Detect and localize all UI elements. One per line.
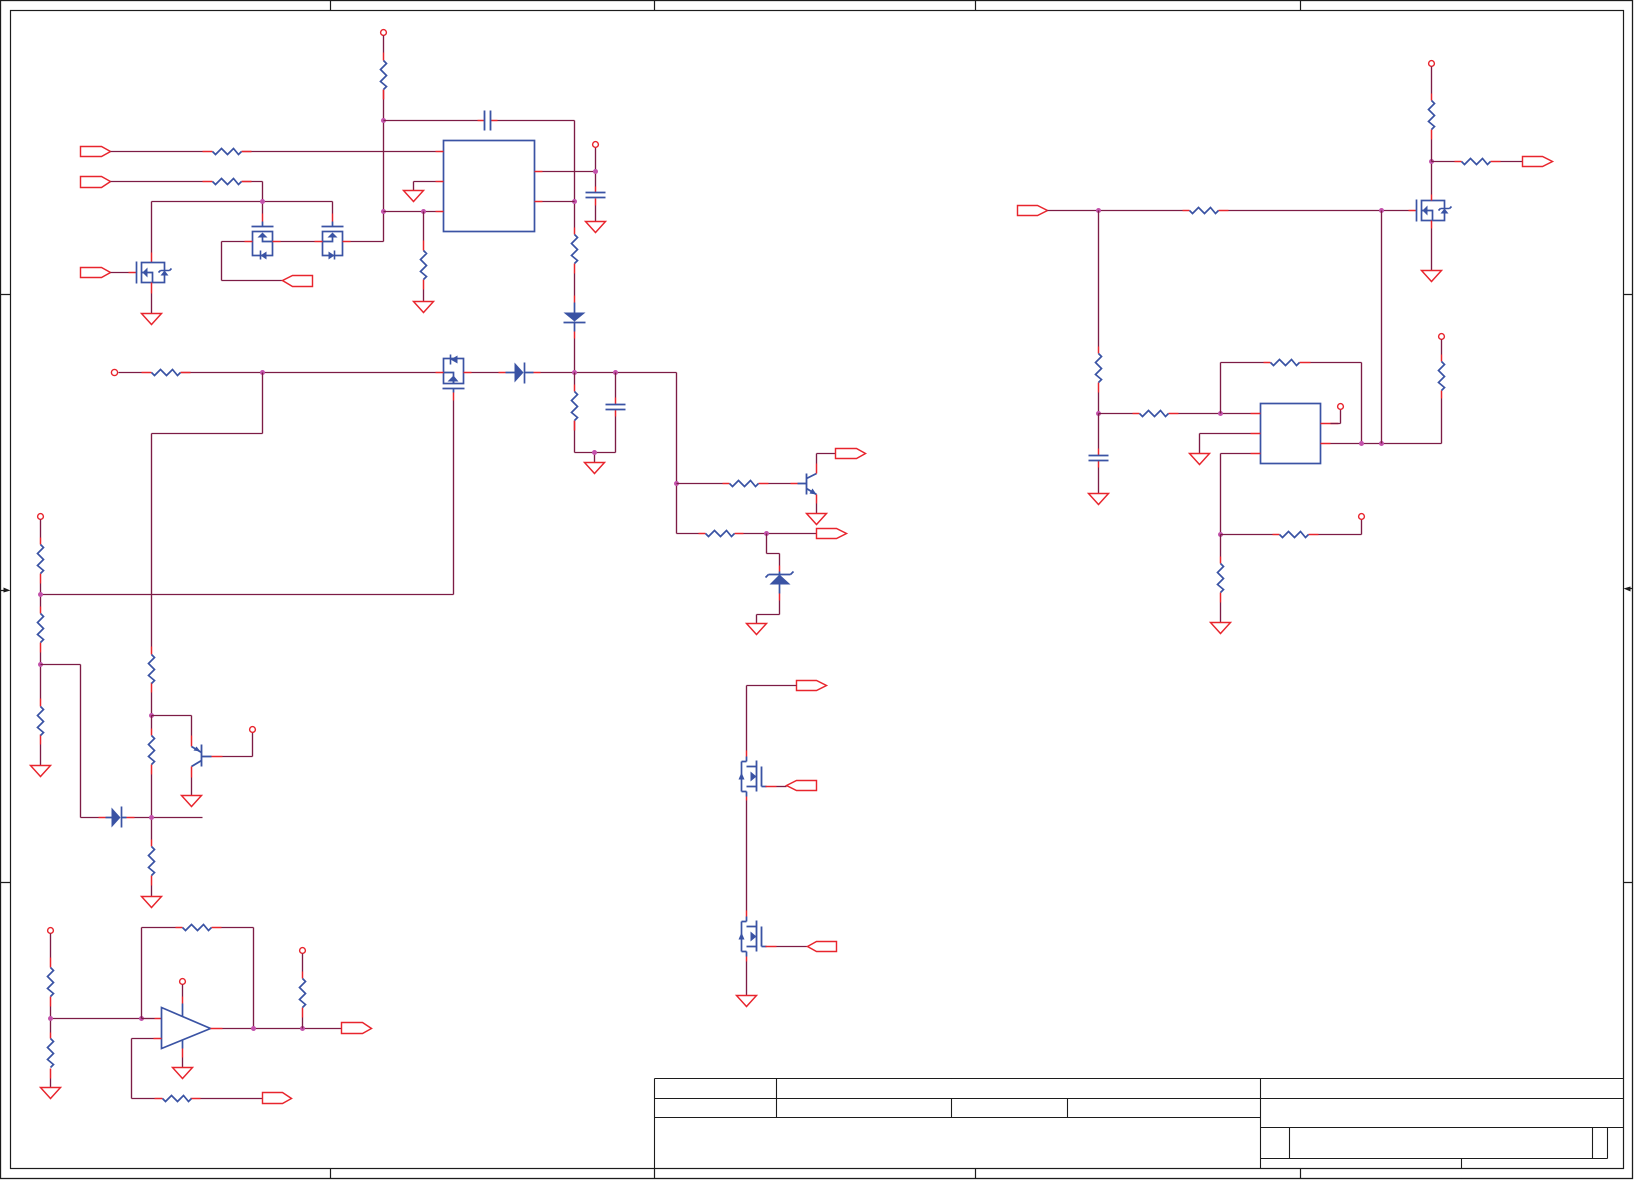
junction	[674, 481, 679, 486]
wire P2 to gate rail	[111, 182, 263, 202]
junction	[764, 531, 769, 536]
port P12	[808, 942, 837, 952]
wire P1 to U1 pin1	[111, 151, 436, 153]
wire Q6 base to pin circle	[212, 756, 223, 758]
port P13	[1018, 206, 1048, 216]
pin circle left column top	[38, 514, 44, 520]
junction	[260, 370, 265, 375]
ground	[747, 624, 767, 635]
junction	[613, 370, 618, 375]
wire U2 output rail	[1331, 399, 1442, 444]
op-amp U3	[162, 1008, 211, 1049]
junction	[572, 370, 577, 375]
ground	[414, 302, 434, 313]
ground	[173, 1068, 193, 1079]
resistor R26	[1264, 362, 1311, 364]
port P4	[283, 276, 313, 287]
wire U2 pin2 to ground	[1200, 434, 1251, 454]
resistor R3	[383, 53, 385, 100]
pin circle R29 top	[1439, 334, 1445, 340]
diode D1 (down)	[564, 303, 586, 332]
ground	[1211, 623, 1231, 634]
ground	[585, 463, 605, 474]
ground	[41, 1088, 61, 1099]
port P1	[81, 147, 111, 157]
junction	[300, 1026, 305, 1031]
ground	[31, 766, 51, 777]
Q4 pin stubs	[436, 373, 472, 401]
capacitor C2	[595, 187, 597, 206]
ground	[807, 514, 827, 525]
port P14	[1523, 157, 1553, 167]
zener diode D3	[766, 572, 794, 594]
wire branch down-left	[152, 373, 263, 716]
transistor Q7 (N-MOSFET)	[739, 757, 767, 797]
wire top feedback through C1	[384, 121, 575, 228]
op-amp/regulator U1 box	[444, 141, 535, 232]
resistor R13	[40, 699, 42, 745]
junction	[38, 662, 43, 667]
wire U2 right pin1 to pin circle	[1331, 410, 1341, 424]
junction	[1429, 159, 1434, 164]
wire R16 chain	[51, 934, 142, 1088]
wire C4 branch	[1098, 414, 1100, 494]
wire R14 R15 chain	[151, 716, 153, 897]
wire to R9 and Q5 base	[677, 483, 791, 485]
pin circle op-amp input chain	[48, 928, 54, 934]
ground	[1190, 454, 1210, 465]
wire to Q6 emitter	[152, 716, 192, 736]
wire branch to D4	[41, 665, 99, 818]
junction	[592, 450, 597, 455]
wire U1 pin3 rail	[384, 211, 436, 213]
wire R10 to port P6	[744, 533, 817, 535]
wire R22 chain	[1431, 67, 1433, 162]
wire R28 to ground	[1220, 535, 1222, 623]
transistor Q1 (P-MOSFET)	[137, 262, 172, 284]
resistor R29	[1441, 355, 1443, 399]
wire R27 to pin circle	[1221, 520, 1362, 535]
wire U1 right pin2	[543, 201, 575, 203]
U2 pin stubs	[1251, 414, 1339, 454]
wire feedback R26	[1221, 363, 1362, 444]
wire Q8 gate to port P12	[766, 946, 777, 948]
wire R8 branch	[575, 373, 616, 463]
capacitor C1	[478, 120, 498, 122]
ground	[1089, 494, 1109, 505]
wire P10 to Q7 drain	[747, 686, 797, 751]
wire Q1 source to ground	[151, 283, 153, 294]
pin circle	[593, 142, 599, 148]
junction	[1359, 441, 1364, 446]
resistor R1	[203, 151, 252, 153]
pin circle top of R3	[381, 30, 387, 36]
junction	[260, 199, 265, 204]
wire R20 pull-up	[302, 954, 304, 1029]
wire zener branch	[757, 534, 780, 624]
resistor R10	[699, 533, 744, 535]
wire R29	[1441, 340, 1443, 355]
capacitor C3	[615, 398, 617, 417]
port P8	[263, 1093, 292, 1104]
wire Q8 source to ground	[746, 957, 748, 962]
junction	[149, 815, 154, 820]
resistor R9	[723, 483, 769, 485]
diode D4	[106, 807, 127, 828]
transistor Q2 (dual MOSFET left)	[252, 222, 274, 260]
junction	[381, 118, 386, 123]
resistor R21	[1183, 210, 1229, 212]
pin circle	[1338, 404, 1344, 410]
junction	[381, 209, 386, 214]
junction	[48, 1016, 53, 1021]
TITLE BLOCK	[655, 1079, 1624, 1169]
wire Q5 emitter to ground	[816, 495, 818, 504]
wire Q2 left pin to port P4	[245, 241, 253, 243]
junction	[1096, 411, 1101, 416]
junction	[1218, 411, 1223, 416]
resistor R25	[1133, 413, 1179, 415]
resistor R24	[1098, 347, 1100, 393]
port P3	[81, 268, 111, 278]
resistor R20	[302, 972, 304, 1018]
resistor R18	[176, 927, 222, 929]
port P2	[81, 177, 111, 188]
wire Q9 source to ground	[1431, 221, 1433, 229]
wire main node rail	[541, 373, 699, 534]
transistor Q5 (NPN)	[798, 474, 817, 495]
resistor R17	[50, 1033, 52, 1079]
IC U2 box	[1261, 404, 1321, 464]
resistor R5	[572, 235, 578, 264]
junction	[38, 592, 43, 597]
resistor R22	[1431, 94, 1433, 140]
junction	[149, 713, 154, 718]
junction	[1379, 441, 1384, 446]
resistor R15	[151, 840, 153, 886]
resistor R11	[40, 538, 42, 584]
resistor R2	[203, 181, 252, 183]
wire Q9 drain up	[1431, 195, 1433, 201]
ground	[737, 996, 757, 1007]
wire P3 to Q1 gate	[111, 272, 129, 274]
junction	[251, 1026, 256, 1031]
wire Q6 collector to ground	[191, 767, 193, 778]
wire feedback loop R18	[142, 928, 254, 1028]
wire R25 to U2 pin1	[1099, 413, 1251, 415]
wire Q4 drain to D2	[472, 372, 499, 374]
wire Q7 gate to port P11	[766, 786, 777, 788]
resistor R23	[1455, 161, 1501, 163]
wire U2 pin3 down	[1221, 454, 1251, 535]
pin circle pull-up	[300, 948, 306, 954]
resistor R14	[151, 729, 153, 775]
resistor R6	[142, 372, 191, 374]
transistor Q6 (PNP)	[192, 745, 212, 767]
junction	[421, 209, 426, 214]
U3 ground pin	[182, 1041, 184, 1049]
junction	[139, 1016, 144, 1021]
transistor Q3 (dual MOSFET right, mirrored)	[322, 222, 344, 260]
pin circle	[1359, 514, 1365, 520]
wire Q3 right pin to node	[343, 241, 351, 243]
U1 pin stubs	[436, 152, 543, 212]
diode D2	[506, 363, 534, 384]
wire plus input to R19 and port P8	[154, 1038, 162, 1040]
U3 power pin	[180, 979, 186, 985]
junction	[1096, 208, 1101, 213]
wire gate rail	[152, 202, 333, 253]
port P7	[836, 449, 866, 459]
wire U1 right pin1 to node	[543, 147, 596, 222]
resistor R7	[151, 647, 153, 693]
wire R3 chain	[383, 36, 385, 121]
capacitor C4	[1098, 449, 1100, 468]
ground	[1422, 271, 1442, 282]
wire Q7 source to Q8 drain	[746, 797, 748, 801]
ground	[404, 191, 424, 202]
wire R4 chain	[423, 212, 425, 302]
pin stubs Q2 Q3 gates and Q1 drain	[152, 214, 333, 263]
wire Q5 collector to port P7	[816, 464, 818, 474]
resistor R28	[1220, 557, 1222, 603]
transistor Q9 (P-MOSFET gate left)	[1417, 200, 1452, 222]
port P10	[797, 681, 827, 691]
transistor Q8 (N-MOSFET)	[739, 917, 767, 957]
port P9	[342, 1023, 372, 1034]
ground	[142, 897, 162, 908]
wire to R23 and port P14	[1432, 161, 1523, 163]
wire R24 divider	[1098, 211, 1100, 414]
wire U3 output	[211, 1028, 223, 1030]
wire minus input	[142, 1018, 155, 1020]
junction	[1218, 532, 1223, 537]
wire U1 pin2 to ground	[414, 182, 436, 191]
resistor R27	[1273, 534, 1319, 536]
resistor R19	[155, 1098, 201, 1100]
wire Q4 gate to feedback rail	[41, 401, 454, 595]
wire R5 to D1	[574, 228, 576, 274]
junction	[572, 199, 577, 204]
resistor R8	[574, 385, 576, 431]
ground	[586, 222, 606, 233]
wire long vertical	[1381, 211, 1383, 444]
wire left divider chain	[40, 520, 42, 766]
resistor R16	[50, 958, 52, 1007]
ground	[182, 796, 202, 807]
transistor Q4 (P-MOSFET gate down)	[443, 355, 465, 393]
port P6	[817, 529, 847, 539]
junction	[593, 169, 598, 174]
junction	[1379, 208, 1384, 213]
resistor R12	[40, 607, 42, 653]
wire Q2-Q3 link	[273, 241, 323, 243]
ground	[142, 314, 162, 325]
wire P13 rail to Q9 gate	[1048, 210, 1409, 212]
wire to R6	[119, 372, 436, 374]
port P11	[787, 781, 817, 791]
resistor R4	[423, 241, 425, 290]
pin circle main line input	[111, 369, 117, 375]
pin circle	[250, 727, 256, 733]
pin circle R22 top	[1429, 61, 1435, 67]
